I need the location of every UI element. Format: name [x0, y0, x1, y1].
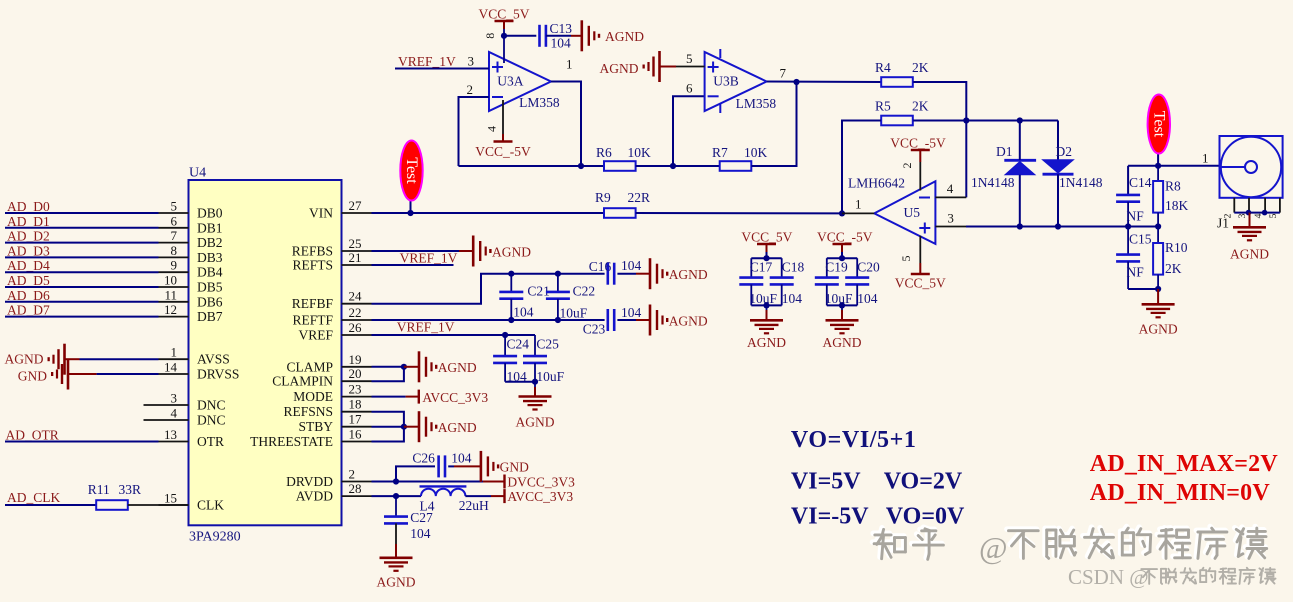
svg-text:R7: R7	[712, 145, 728, 160]
U3A pin 4 power wire	[502, 100, 504, 134]
svg-text:DRVSS: DRVSS	[197, 367, 239, 382]
svg-text:27: 27	[349, 198, 363, 213]
wire REFBS pin 25	[372, 250, 460, 252]
svg-text:THREESTATE: THREESTATE	[250, 434, 333, 449]
U5 pin 2 wire and rotated number	[919, 162, 921, 191]
svg-text:REFBS: REFBS	[292, 244, 333, 259]
wire U5 pin 4 to R4/R5 node	[935, 196, 966, 198]
resistor R7	[720, 161, 752, 171]
power port AGND right of C16	[650, 258, 708, 289]
svg-text:AD_D7: AD_D7	[7, 303, 50, 318]
wire C23 to AGND	[617, 319, 636, 321]
ground AGND below J1	[1230, 213, 1269, 262]
power port AVCC_3V3 at AVDD	[491, 489, 573, 504]
wire AD_D1	[5, 227, 159, 229]
wire R5 right to diode rail	[913, 120, 1058, 122]
wire node up to U3B pin 6	[673, 96, 705, 166]
svg-text:D1: D1	[996, 144, 1013, 159]
op-amp U3B LM358	[705, 49, 767, 113]
svg-text:LM358: LM358	[519, 95, 560, 110]
svg-text:25: 25	[349, 236, 362, 251]
wire U3A pin8 to C13	[504, 35, 536, 37]
wire C16 to AGND	[617, 273, 636, 275]
svg-text:VIN: VIN	[309, 206, 333, 221]
svg-text:AGND: AGND	[516, 415, 555, 430]
svg-text:6: 6	[171, 213, 178, 228]
svg-text:VCC_-5V: VCC_-5V	[475, 144, 531, 159]
svg-text:2: 2	[467, 82, 474, 97]
svg-text:3: 3	[947, 211, 954, 226]
svg-text:1N4148: 1N4148	[1059, 175, 1103, 190]
svg-text:5: 5	[1269, 213, 1279, 218]
svg-text:OTR: OTR	[197, 434, 224, 449]
svg-text:24: 24	[349, 289, 363, 304]
resistor R11	[96, 500, 128, 510]
wire AD_D5	[5, 286, 159, 288]
svg-text:Test: Test	[1150, 111, 1167, 138]
junction dot C19 bottom	[839, 302, 845, 308]
wire AD_CLK to R11	[5, 504, 96, 506]
svg-text:104: 104	[551, 36, 572, 51]
svg-text:NF: NF	[1127, 209, 1145, 224]
capacitor C18	[770, 258, 794, 305]
wire DRVDD branch up to C26	[396, 466, 435, 481]
capacitor C26	[437, 455, 440, 477]
svg-text:DB3: DB3	[197, 250, 223, 265]
svg-text:R11: R11	[88, 482, 110, 497]
junction dot diode D1 top node	[1017, 117, 1023, 123]
junction dot AVDD node	[393, 493, 399, 499]
svg-text:REFTF: REFTF	[292, 313, 333, 328]
svg-text:DB0: DB0	[197, 206, 223, 221]
power port AGND right of C23	[650, 305, 708, 336]
svg-text:16: 16	[349, 427, 363, 442]
svg-text:9: 9	[171, 258, 178, 273]
junction dot J1 pin4	[1262, 210, 1268, 216]
svg-text:1: 1	[1202, 151, 1209, 166]
test point marker 1 Test	[400, 141, 422, 214]
svg-text:VCC_5V: VCC_5V	[478, 6, 529, 21]
wire REFBF pin 24 riser to top rail	[372, 274, 605, 304]
svg-text:VREF_1V: VREF_1V	[398, 54, 456, 69]
svg-text:1: 1	[855, 197, 862, 212]
svg-text:AVCC_3V3: AVCC_3V3	[507, 489, 573, 504]
resistor R10	[1153, 227, 1163, 290]
capacitor C25	[523, 335, 547, 382]
svg-text:D2: D2	[1056, 144, 1073, 159]
wire R11 to CLK pin 15	[128, 504, 189, 506]
svg-text:104: 104	[621, 258, 642, 273]
svg-text:AD_D3: AD_D3	[7, 243, 50, 258]
power port DVCC_3V3 at DRVDD	[483, 475, 575, 490]
junction dot C21 top	[508, 271, 514, 277]
junction dot C19 top	[839, 255, 845, 261]
wire C15 bottom jog	[1128, 288, 1158, 290]
power port GND at U4 DRVSS pin 14	[18, 359, 97, 390]
svg-text:U3A: U3A	[497, 74, 523, 89]
junction dot pins 19-20 node	[401, 364, 407, 370]
wire DRVSS to GND	[97, 373, 159, 375]
svg-text:LMH6642: LMH6642	[848, 176, 905, 191]
svg-text:C25: C25	[536, 337, 559, 352]
svg-text:104: 104	[621, 305, 642, 320]
svg-text:20: 20	[349, 366, 362, 381]
ground AGND below C24 C25	[516, 382, 555, 430]
svg-text:VREF_1V: VREF_1V	[400, 251, 458, 266]
wire C17 rail bottom	[751, 304, 781, 306]
svg-text:2K: 2K	[912, 98, 929, 113]
svg-text:22: 22	[349, 305, 362, 320]
svg-text:3: 3	[171, 391, 178, 406]
capacitor C16	[608, 263, 614, 285]
connector J1 BNC symbol	[1220, 136, 1283, 198]
power port AGND at U4 AVSS pin 1	[5, 344, 80, 375]
svg-text:REFTS: REFTS	[292, 258, 333, 273]
svg-text:AD_IN_MIN=0V: AD_IN_MIN=0V	[1090, 480, 1271, 506]
IC U4 3PA9280 body	[189, 180, 342, 525]
svg-text:2: 2	[1223, 213, 1233, 218]
U3A pin 8 power wire	[503, 29, 505, 63]
wire AD_OTR to OTR pin 13	[5, 441, 159, 443]
svg-text:26: 26	[349, 320, 363, 335]
wire MODE pin 23	[372, 396, 406, 398]
svg-text:DB5: DB5	[197, 280, 223, 295]
svg-text:DB6: DB6	[197, 294, 223, 309]
svg-text:C23: C23	[583, 322, 606, 337]
power port VCC_-5V above C19 C20	[817, 230, 873, 253]
junction dot D2 bottom	[1055, 223, 1061, 229]
junction dot divider bottom	[1155, 286, 1161, 292]
junction dot C21 bottom	[508, 317, 514, 323]
junction dot D1 bottom	[1017, 223, 1023, 229]
wire REFSNS STBY THREESTATE bracket	[372, 412, 404, 442]
svg-text:23: 23	[349, 382, 362, 397]
svg-text:10K: 10K	[628, 145, 652, 160]
op-amp U5 LMH6642	[874, 181, 935, 244]
U4 right pins with numbers and names	[250, 198, 371, 504]
capacitor C14	[1116, 195, 1140, 227]
svg-text:R8: R8	[1165, 179, 1181, 194]
wire U5 pin3 row to divider	[935, 226, 966, 228]
svg-text:AVDD: AVDD	[296, 489, 334, 504]
svg-text:4: 4	[485, 126, 499, 132]
power port AGND at STBY	[404, 411, 477, 442]
svg-text:REFBF: REFBF	[292, 296, 334, 311]
svg-text:VI=-5VVO=0V: VI=-5VVO=0V	[791, 504, 965, 530]
capacitor C15	[1116, 227, 1140, 290]
wire AVSS to AGND	[80, 358, 159, 360]
svg-text:U3B: U3B	[713, 74, 739, 89]
svg-text:AGND: AGND	[669, 267, 708, 282]
svg-text:AGND: AGND	[492, 245, 531, 260]
wire CLAMP pin19 CLAMPIN pin20 bracket	[372, 367, 404, 381]
wire C19 rail top	[841, 252, 843, 258]
wire D2 cathode down	[1057, 174, 1059, 226]
wire VIN from U4 pin 27	[372, 212, 605, 214]
svg-text:R4: R4	[875, 60, 891, 75]
svg-text:6: 6	[686, 81, 693, 96]
svg-text:14: 14	[164, 360, 178, 375]
svg-text:C15: C15	[1129, 232, 1152, 247]
svg-text:U5: U5	[904, 205, 921, 220]
svg-text:C13: C13	[550, 21, 573, 36]
svg-text:C24: C24	[507, 337, 530, 352]
J1 ground pins 2 3 4 5	[1223, 198, 1280, 219]
svg-text:C17: C17	[750, 260, 773, 275]
svg-text:10uF: 10uF	[536, 369, 564, 384]
wire top row to J1 pin 1	[1128, 165, 1219, 167]
svg-text:1: 1	[171, 345, 178, 360]
svg-text:AGND: AGND	[5, 352, 44, 367]
test point marker 2 Test	[1148, 95, 1170, 166]
wire L4 to AVCC_3V3	[465, 495, 491, 497]
svg-text:DNC: DNC	[197, 413, 226, 428]
svg-text:1: 1	[566, 57, 573, 72]
op-amp U3A LM358	[489, 52, 551, 111]
svg-text:VREF_1V: VREF_1V	[397, 320, 455, 335]
power port VCC_5V at U5 pin 5	[895, 263, 946, 291]
inductor L4 22uH	[420, 486, 467, 496]
junction dot U5 output node	[839, 210, 845, 216]
wire C26 to GND	[448, 465, 454, 467]
power port GND right of C26	[481, 451, 529, 482]
svg-text:28: 28	[349, 481, 362, 496]
wire REFTF pin 22 rail	[372, 319, 605, 321]
svg-text:AD_CLK: AD_CLK	[7, 490, 60, 505]
svg-text:17: 17	[349, 412, 363, 427]
wire REFTS pin 21	[372, 264, 454, 266]
svg-text:AVCC_3V3: AVCC_3V3	[422, 390, 488, 405]
power port AGND right of C13	[582, 20, 644, 51]
svg-text:C16: C16	[589, 259, 612, 274]
svg-text:AGND: AGND	[377, 575, 416, 590]
ground AGND below C19 C20	[823, 305, 862, 350]
junction dot ground stem C24 C25	[532, 379, 538, 385]
svg-text:R9: R9	[595, 190, 611, 205]
svg-text:LM358: LM358	[736, 96, 777, 111]
svg-text:DRVDD: DRVDD	[286, 474, 333, 489]
ground AGND below C27	[377, 558, 416, 590]
svg-text:15: 15	[164, 491, 177, 506]
svg-text:R10: R10	[1165, 240, 1188, 255]
svg-text:VO=VI/5+1: VO=VI/5+1	[791, 427, 917, 453]
junction dot R8 mid node	[1155, 223, 1161, 229]
watermark zhihu logo text	[873, 527, 1267, 566]
svg-text:19: 19	[349, 352, 362, 367]
svg-text:3: 3	[468, 54, 475, 69]
capacitor C19	[815, 258, 839, 305]
capacitor C21	[499, 274, 523, 320]
svg-text:AD_IN_MAX=2V: AD_IN_MAX=2V	[1090, 451, 1279, 477]
svg-text:104: 104	[857, 291, 878, 306]
svg-text:18K: 18K	[1165, 198, 1189, 213]
wire R6 to R7 node	[636, 165, 720, 167]
svg-text:R6: R6	[596, 145, 612, 160]
wire C19 rail bottom	[827, 304, 857, 306]
svg-text:4: 4	[947, 181, 954, 196]
svg-text:5: 5	[171, 199, 178, 214]
svg-text:AGND: AGND	[1139, 322, 1178, 337]
svg-text:AGND: AGND	[438, 420, 477, 435]
wire C13 to AGND	[546, 35, 571, 37]
svg-text:4: 4	[171, 406, 178, 421]
wire rail down to D2	[1057, 121, 1059, 160]
watermark csdn text	[1068, 565, 1276, 589]
resistor R6	[604, 161, 636, 171]
svg-text:104: 104	[513, 305, 534, 320]
svg-text:C26: C26	[412, 451, 435, 466]
wire R4 to inverting node riser	[913, 82, 966, 197]
wire AVDD pin 28	[372, 495, 422, 497]
svg-text:3PA9280: 3PA9280	[189, 530, 241, 545]
svg-text:Test: Test	[403, 157, 420, 184]
svg-text:104: 104	[410, 526, 431, 541]
wire AD_D2	[5, 242, 159, 244]
svg-text:10: 10	[164, 273, 177, 288]
resistor R5	[881, 116, 913, 126]
svg-text:2K: 2K	[1165, 261, 1182, 276]
U5 pin 5 wire and rotated number	[919, 236, 921, 263]
svg-text:VCC_5V: VCC_5V	[741, 230, 792, 245]
wire C27 to AGND	[395, 523, 397, 544]
svg-text:7: 7	[780, 66, 787, 81]
power port AGND at REFBS	[459, 236, 531, 267]
capacitor C17	[739, 258, 763, 305]
wire VREF pin 26	[372, 334, 536, 336]
svg-text:AD_D0: AD_D0	[7, 199, 50, 214]
wire U3A output pin1 down to R6	[551, 82, 581, 167]
wire U5 pin1 output	[842, 212, 874, 214]
wire feedback row to R6	[459, 165, 605, 167]
junction dot C22 bottom	[555, 317, 561, 323]
U4 left pins with numbers and names	[144, 199, 240, 513]
svg-text:AGND: AGND	[823, 335, 862, 350]
svg-text:AVSS: AVSS	[197, 352, 230, 367]
svg-text:11: 11	[164, 287, 177, 302]
junction dot pins 18-17-16 node	[401, 424, 407, 430]
svg-text:10uF: 10uF	[749, 291, 777, 306]
svg-text:AGND: AGND	[605, 29, 644, 44]
wire AD_D7	[5, 316, 159, 318]
svg-text:NF: NF	[1127, 265, 1145, 280]
wire AD_D4	[5, 271, 159, 273]
diode D2 1N4148	[1043, 160, 1074, 174]
svg-text:AD_D1: AD_D1	[7, 214, 50, 229]
junction dot test point 1	[407, 210, 413, 216]
svg-text:10uF: 10uF	[825, 291, 853, 306]
junction dot R4-R5-pin4 node	[963, 117, 969, 123]
ground AGND below C17 C18	[747, 305, 786, 350]
junction dot C24 top	[502, 332, 508, 338]
diode D1 1N4148	[1004, 160, 1036, 174]
capacitor C23	[608, 309, 614, 331]
junction dot J1 pin3	[1246, 210, 1252, 216]
wire DRVDD pin 2	[372, 481, 484, 483]
capacitor C22	[546, 274, 570, 320]
svg-text:2K: 2K	[912, 60, 929, 75]
svg-text:2: 2	[900, 163, 914, 169]
svg-text:@: @	[979, 530, 1008, 565]
capacitor C13	[538, 25, 541, 47]
svg-text:21: 21	[349, 250, 362, 265]
svg-text:8: 8	[171, 243, 178, 258]
svg-text:DB4: DB4	[197, 265, 223, 280]
svg-text:10K: 10K	[744, 145, 768, 160]
wire AD_D6	[5, 301, 159, 303]
svg-text:18: 18	[349, 397, 362, 412]
svg-text:13: 13	[164, 427, 177, 442]
wire VREF_1V to U3A pin3	[395, 68, 489, 70]
svg-text:DB1: DB1	[197, 220, 223, 235]
svg-text:DNC: DNC	[197, 398, 226, 413]
svg-text:CLK: CLK	[197, 498, 224, 513]
svg-text:C27: C27	[410, 510, 433, 525]
svg-text:VCC_-5V: VCC_-5V	[817, 230, 873, 245]
svg-text:CLAMPIN: CLAMPIN	[272, 374, 333, 389]
capacitor C20	[845, 258, 869, 305]
wire AGND to U3B pin5	[676, 66, 705, 68]
svg-text:AD_D6: AD_D6	[7, 288, 50, 303]
svg-text:R5: R5	[875, 98, 891, 113]
svg-text:STBY: STBY	[298, 419, 333, 434]
svg-text:C18: C18	[782, 260, 805, 275]
power port VCC_5V above U3A	[478, 6, 529, 29]
svg-text:CSDN @: CSDN @	[1068, 565, 1149, 589]
junction dot C22 top	[555, 271, 561, 277]
svg-text:AD_D4: AD_D4	[7, 258, 50, 273]
svg-text:C22: C22	[573, 284, 596, 299]
svg-text:AGND: AGND	[600, 61, 639, 76]
svg-text:VCC_-5V: VCC_-5V	[890, 135, 946, 150]
svg-text:AGND: AGND	[438, 360, 477, 375]
wire top row corner down to C14	[1127, 166, 1129, 194]
wire C24 C25 bottom rail	[505, 381, 535, 383]
svg-text:5: 5	[899, 256, 913, 262]
svg-text:VCC_5V: VCC_5V	[895, 276, 946, 291]
svg-text:C19: C19	[825, 260, 848, 275]
svg-text:C14: C14	[1129, 175, 1152, 190]
svg-text:C20: C20	[857, 260, 880, 275]
power port AGND at U3B pin 5	[600, 51, 677, 82]
svg-text:AD_D5: AD_D5	[7, 273, 50, 288]
svg-text:AGND: AGND	[1230, 247, 1269, 262]
svg-text:AGND: AGND	[747, 335, 786, 350]
junction dot test point 2	[1155, 163, 1161, 169]
svg-text:MODE: MODE	[293, 389, 333, 404]
svg-text:DB7: DB7	[197, 309, 223, 324]
wire AD_D0	[5, 212, 159, 214]
wire C17 rail top	[766, 252, 768, 258]
wire D1 cathode up	[1019, 121, 1021, 161]
wire U3A pin2 feedback down	[459, 97, 490, 166]
junction dot at U3A pin8 node	[501, 33, 507, 39]
power port VCC_-5V at U5 pin 2	[890, 135, 946, 162]
ground AGND below R10	[1139, 289, 1178, 337]
svg-text:U4: U4	[189, 166, 206, 181]
junction dot U3B out node	[793, 79, 799, 85]
svg-text:10uF: 10uF	[560, 306, 588, 321]
capacitor C27	[384, 496, 408, 523]
svg-text:AGND: AGND	[669, 313, 708, 328]
svg-text:104: 104	[782, 291, 803, 306]
junction dot DRVDD node	[393, 478, 399, 484]
svg-text:CLAMP: CLAMP	[286, 359, 333, 374]
svg-text:GND: GND	[18, 369, 47, 384]
svg-text:8: 8	[483, 33, 497, 39]
wire U3B out to R4	[767, 81, 881, 84]
junction dot U3A out node	[578, 163, 584, 169]
svg-text:GND: GND	[500, 460, 529, 475]
